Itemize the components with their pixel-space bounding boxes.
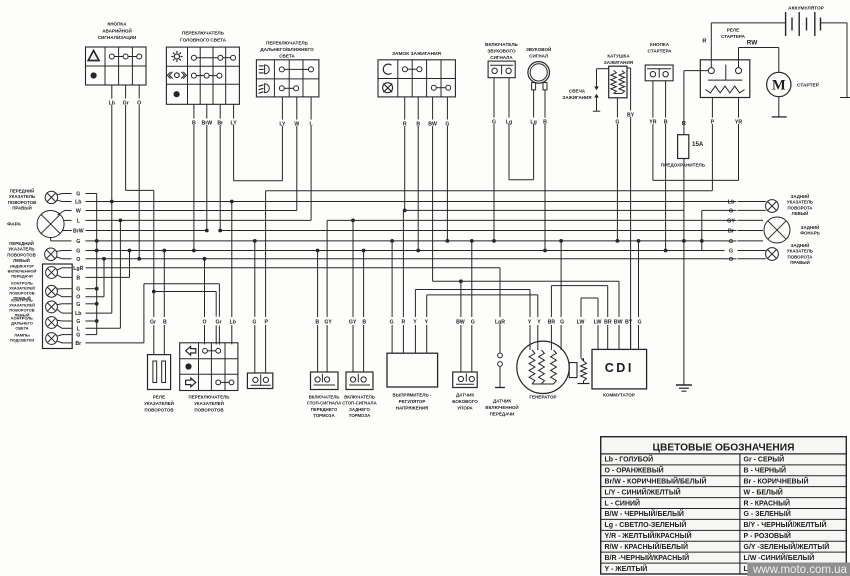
svg-text:LgR: LgR [495,320,505,326]
svg-text:L: L [77,326,81,332]
wire L from HL7 [57,325,62,328]
wire R battery to relay [710,23,712,68]
junction G-bus/CDI [637,239,641,243]
svg-text:W: W [294,122,299,128]
svg-text:O: O [137,101,141,107]
junction B/starter-button [664,249,668,253]
wire YR link button-to-relay [653,179,739,181]
junction R/ignition-lock [403,209,407,213]
wire BW bus ignition-to-CDI [433,280,619,282]
svg-text:R: R [702,39,707,45]
svg-text:ТОРМОЗА: ТОРМОЗА [313,413,334,418]
wire Lb stub front-right-turn [62,201,72,203]
starter relay K1 body [700,60,750,98]
wire Br stub illumination [62,342,72,344]
svg-text:L/W -СИНИЙ/БЕЛЫЙ: L/W -СИНИЙ/БЕЛЫЙ [744,553,815,562]
svg-text:L: L [77,218,81,224]
svg-text:ЗВУКОВОГО: ЗВУКОВОГО [487,49,516,54]
svg-text:ВКЛЮЧАТЕЛЬ: ВКЛЮЧАТЕЛЬ [485,42,518,47]
wire G from HL2 bottom [50,238,52,241]
wire BR generator-to-CDI link [551,285,607,287]
wire LgR stub gear-indicator [62,267,72,269]
junction GY/rear-brake [351,219,355,223]
junction B-link [128,249,132,253]
svg-text:B: B [664,120,668,126]
wire O stub front-left-turn [62,258,72,260]
junction G/horn-button [492,239,496,243]
wire G from HL3 [57,250,62,253]
wire G from generator [560,241,562,317]
svg-text:ЗАДНИЙ: ЗАДНИЙ [801,225,820,230]
svg-text:ПРАВЫЙ: ПРАВЫЙ [12,206,32,211]
svg-text:LY: LY [231,121,238,127]
wire LgR bus [97,267,500,269]
junction B-bus/rear-brake [362,249,366,253]
wire Lb bus front-to-rear [97,201,725,203]
svg-text:LW: LW [594,320,602,326]
icon left arrow in S7 [186,346,196,355]
svg-text:ЗАДНИЙ: ЗАДНИЙ [791,243,810,248]
svg-text:ЗАЖИГАНИЯ: ЗАЖИГАНИЯ [562,95,591,100]
svg-text:Br: Br [217,121,223,127]
svg-text:ПЕРЕКЛЮЧАТЕЛЬ: ПЕРЕКЛЮЧАТЕЛЬ [182,31,225,36]
wire B from ignition lock [417,97,419,120]
wire Lg jumper horn-button-to-horn [509,179,534,181]
wire P from starter relay [711,98,713,118]
front left turn signal lamp HL3 [45,248,57,260]
CDI unit U1 body [592,349,647,389]
wire O bus front-to-rear [104,258,725,260]
svg-text:R: R [402,320,406,326]
svg-text:www.moto.com.ua: www.moto.com.ua [752,564,848,576]
svg-text:ДАЛЬНЕГО/БЛИЖНЕГО: ДАЛЬНЕГО/БЛИЖНЕГО [260,47,314,52]
svg-text:B/W - ЧЕРНЫЙ/БЕЛЫЙ: B/W - ЧЕРНЫЙ/БЕЛЫЙ [605,509,684,518]
high beam indicator lamp HL7 [46,317,58,329]
wire LY from headlight switch [233,104,235,118]
horn button S5 body [488,61,515,78]
svg-text:Lg: Lg [506,120,512,126]
svg-text:O: O [76,295,80,301]
svg-text:BW: BW [428,122,437,128]
icon low beam in S3 [265,84,270,93]
generator G1 body [517,341,569,393]
svg-text:B: B [315,320,319,326]
svg-text:B: B [192,121,196,127]
wire BR from CDI [607,286,609,317]
wire LW pickup-to-CDI link [581,297,598,299]
svg-text:R: R [682,121,686,127]
svg-text:W - БЕЛЫЙ: W - БЕЛЫЙ [744,487,783,496]
wire YR from starter relay [738,98,740,118]
front right turn signal lamp HL1 [45,191,57,203]
svg-text:P - РОЗОВЫЙ: P - РОЗОВЫЙ [744,531,791,540]
svg-text:L/Y - СИНИЙ/ЖЕЛТЫЙ: L/Y - СИНИЙ/ЖЕЛТЫЙ [605,487,681,496]
junction O/turn-switch [203,257,207,261]
wire O from hazard switch [138,85,140,99]
hazard switch S1 body [86,47,147,85]
ground below CDI [676,384,692,386]
wire BW from side stand sensor [460,281,462,317]
svg-text:B: B [163,320,167,326]
svg-text:Br/W - КОРИЧНЕВЫЙ/БЕЛЫЙ: Br/W - КОРИЧНЕВЫЙ/БЕЛЫЙ [605,476,707,485]
svg-text:R - КРАСНЫЙ: R - КРАСНЫЙ [744,498,790,507]
svg-text:ПЕРЕДНЕГО: ПЕРЕДНЕГО [311,407,338,412]
wire battery negative [821,22,848,24]
icon right arrow in S7 [186,378,196,387]
icon parking light in S2 [175,73,180,78]
side stand sensor S10 body [453,372,478,388]
wire P bus relay-to-connector [266,190,713,192]
junction Br/headlight-switch [218,229,222,233]
svg-text:G: G [729,208,733,214]
wire Lb from hazard switch [111,85,113,99]
svg-text:G: G [76,287,80,293]
wire LW from pickup coil [580,298,582,317]
svg-text:Lb: Lb [75,200,81,206]
wire G from ignition coil [616,98,618,118]
wire BY ignition coil to CDI [627,67,631,69]
fuse FU1 15A body [678,135,689,159]
wire O stub right-turn-indicator [62,296,72,298]
svg-text:КНОПКА: КНОПКА [650,42,670,47]
svg-text:YR: YR [735,120,742,126]
svg-text:РЕЛЕ: РЕЛЕ [727,28,739,33]
wire Br link to turn switch [143,284,145,343]
svg-text:АККУМУЛЯТОР: АККУМУЛЯТОР [788,6,825,12]
svg-text:G: G [76,249,80,255]
starter button S6 body [645,65,673,81]
rear left turn signal lamp HL9 [766,200,779,213]
svg-text:G: G [492,120,496,126]
wire B front brake switch vertical [317,251,319,318]
svg-text:ВКЛЮЧЕННОЙ: ВКЛЮЧЕННОЙ [485,403,518,410]
wire L stub high-beam-indicator [62,327,72,329]
svg-text:CDI: CDI [605,361,634,375]
svg-text:НАПРЯЖЕНИЯ: НАПРЯЖЕНИЯ [396,405,429,410]
svg-text:СИГНАЛИЗАЦИИ: СИГНАЛИЗАЦИИ [98,35,137,40]
wire starter to ground [778,97,780,117]
wire G stub headlight-ground [60,240,72,242]
svg-text:Br: Br [728,229,735,235]
svg-text:ПОДСВЕТКИ: ПОДСВЕТКИ [10,338,35,343]
wire Y1 from generator [529,290,531,318]
wire B link vertical left [129,251,131,278]
svg-text:Lg: Lg [530,120,536,126]
gear position indicator lamp HL4 [46,267,58,279]
svg-text:Gr - СЕРЫЙ: Gr - СЕРЫЙ [744,455,785,464]
svg-text:P: P [711,120,715,126]
svg-text:O: O [729,257,734,263]
wire B bus (battery hot) [97,250,702,252]
svg-text:B: B [76,275,80,281]
wire G main ground bus [97,240,684,242]
svg-text:СВЕТА: СВЕТА [15,326,28,331]
wire LgR from HL4 [57,268,62,270]
wire Lb from HL6 [57,310,62,314]
junction B/ignition [416,249,420,253]
svg-text:Lg - СВЕТЛО-ЗЕЛЕНЫЙ: Lg - СВЕТЛО-ЗЕЛЕНЫЙ [605,520,687,529]
wire GY rear brake switch vertical [352,220,354,317]
wire G stub right-turn-indicator [62,288,72,290]
spark plug E1 symbol [597,68,609,70]
svg-text:ДАТЧИК: ДАТЧИК [493,399,511,404]
svg-text:L: L [310,122,314,128]
wire Y2 from rectifier [426,295,428,317]
wire O from HL3 [57,257,62,259]
svg-text:Y: Y [537,320,541,326]
beam switch S3 body [256,60,319,97]
svg-text:Br - КОРИЧНЕВЫЙ: Br - КОРИЧНЕВЫЙ [744,476,809,485]
svg-text:Lb: Lb [109,101,115,107]
headlight switch S2 body [166,47,239,104]
junction G-bus/rectifier [390,239,394,243]
wire Lb from HL1 [57,200,62,201]
svg-text:BrW: BrW [73,229,84,235]
svg-text:GY: GY [349,320,357,326]
wire Y rectifier-to-generator link 2 [427,294,538,296]
svg-text:Y - ЖЕЛТЫЙ: Y - ЖЕЛТЫЙ [605,564,648,573]
rear lamp HL10 (ЗАДНИЙ ФОНАРЬ) [764,217,790,243]
svg-text:G: G [252,320,256,326]
svg-text:УКАЗАТЕЛЬ: УКАЗАТЕЛЬ [8,247,34,252]
svg-text:СВЕЧА: СВЕЧА [569,89,586,94]
wire W bus headlight low beam [97,210,297,212]
svg-text:G: G [637,320,641,326]
svg-text:Lb: Lb [230,320,236,326]
voltage regulator-rectifier U2 body [387,353,438,387]
starter motor M1 body [767,72,791,96]
wire Br from headlight switch [219,104,221,118]
wire R from rectifier [402,210,404,317]
junction Lb/hazard [110,200,114,204]
connector X1 (G/P) body [247,373,272,389]
svg-text:G: G [390,320,394,326]
svg-text:СТАРТЕР: СТАРТЕР [797,83,820,89]
svg-text:БОКОВОГО: БОКОВОГО [452,399,478,404]
svg-text:GY: GY [727,218,735,224]
svg-text:LW: LW [577,320,585,326]
wire L stub headlight [68,219,72,221]
svg-text:RW: RW [747,40,758,47]
wire G stub front-right-turn [62,193,72,195]
svg-text:ПОВОРОТОВ: ПОВОРОТОВ [144,407,174,412]
wire L from beam switch [310,97,312,120]
icon off (dot) in S2 [174,91,180,97]
wire B stub gear-indicator [62,276,72,278]
wire BrW stub headlight [68,230,72,232]
svg-text:G/Y -ЗЕЛЕНЫЙ/ЖЕЛТЫЙ: G/Y -ЗЕЛЕНЫЙ/ЖЕЛТЫЙ [744,542,830,551]
wire O from HL5 [57,294,62,297]
svg-text:G: G [729,249,733,255]
svg-text:ДАТЧИК: ДАТЧИК [456,393,474,398]
junction O-link [102,257,106,261]
junction G/coil [616,239,620,243]
wire RW relay to starter [738,48,740,68]
icon lamp-on (sun) in S2 [174,54,179,59]
svg-text:КАТУШКА: КАТУШКА [607,54,630,59]
junction O/hazard [137,257,141,261]
svg-text:УКАЗАТЕЛЬ: УКАЗАТЕЛЬ [787,249,813,254]
wire B rear brake switch vertical [363,251,365,318]
junction G/ignition [446,239,450,243]
wire Y1 from rectifier [414,290,416,318]
svg-text:L - СИНИЙ: L - СИНИЙ [605,498,641,507]
svg-text:BrW: BrW [201,121,212,127]
junction G-bus/generator [559,239,563,243]
flasher relay K2 (РЕЛЕ УКАЗАТЕЛЕЙ ПОВОРОТОВ) body [148,355,171,390]
junction B/headlight-switch [192,249,196,253]
junction B/horn [543,249,547,253]
wire BR from generator [550,286,552,317]
wire R relay pin to fuse [684,70,708,72]
svg-text:ПЕРЕДНИЙ: ПЕРЕДНИЙ [10,189,35,194]
left turn indicator lamp HL6 [46,301,58,313]
svg-text:Lb - ГОЛУБОЙ: Lb - ГОЛУБОЙ [605,455,654,464]
wire L bus headlight high beam [97,219,311,221]
svg-text:СТОП-СИГНАЛА: СТОП-СИГНАЛА [307,401,341,406]
svg-text:G: G [76,319,80,325]
wire G from side stand sensor [471,241,473,317]
ground under starter motor [772,116,787,118]
svg-text:LgR: LgR [73,266,83,272]
svg-text:СТАРТЕРА: СТАРТЕРА [721,34,746,39]
wire BrW from HL2 [62,230,68,232]
svg-text:YR: YR [649,120,656,126]
svg-text:ПОВОРОТОВ: ПОВОРОТОВ [7,252,36,257]
svg-text:B: B [362,320,366,326]
svg-text:Gr: Gr [215,320,221,326]
wire BrW from headlight switch [206,104,208,118]
junction G-bus/side-stand [470,239,474,243]
wire BY from CDI [630,325,632,349]
pickup coil L1 [581,361,587,381]
headlight HL2 [37,211,64,238]
svg-text:BW: BW [456,320,465,326]
icon off dot in S7 [185,363,191,369]
wire L link vertical (headlight to high-beam indicator) [119,220,121,328]
wire O turn switch vertical [204,259,206,317]
junction BW/side-stand [459,279,463,283]
battery GB1 symbol [785,12,787,36]
wire Gr flasher relay vertical [153,190,155,317]
svg-text:УКАЗАТЕЛЕЙ: УКАЗАТЕЛЕЙ [144,399,174,406]
svg-text:ПОВОРОТОВ: ПОВОРОТОВ [8,200,37,205]
wire BW from CDI [618,281,620,317]
wire Lb stub left-turn-indicator [62,312,72,314]
wire B flasher relay vertical [163,251,165,318]
wire G from HL6 [57,303,62,306]
svg-text:BY: BY [627,113,635,119]
svg-text:G: G [76,239,80,245]
svg-text:ВКЛЮЧАТЕЛЬ: ВКЛЮЧАТЕЛЬ [344,395,375,400]
wire Br bus to rear lamp [220,230,724,232]
wire rear ground collector vertical [701,210,703,250]
svg-text:O: O [202,320,206,326]
svg-text:Lb: Lb [75,311,81,317]
svg-text:УКАЗАТЕЛЬ: УКАЗАТЕЛЬ [787,200,813,205]
wire Br from HL8 [57,341,62,343]
svg-text:BR: BR [548,320,556,326]
watermark bar [747,563,850,576]
svg-text:B - ЧЕРНЫЙ: B - ЧЕРНЫЙ [744,466,786,475]
wire O link vertical left [103,259,105,297]
wire YR from starter button [652,81,654,118]
wire G rear-right-turn segment [702,250,725,252]
svg-text:СТОП-СИГНАЛА: СТОП-СИГНАЛА [342,401,376,406]
svg-text:ГОЛОВНОГО СВЕТА: ГОЛОВНОГО СВЕТА [180,37,227,42]
svg-text:ЗАМОК ЗАЖИГАНИЯ: ЗАМОК ЗАЖИГАНИЯ [392,51,442,57]
svg-text:ГЕНЕРАТОР: ГЕНЕРАТОР [529,395,556,400]
junction L-link [119,219,123,223]
svg-text:РЕГУЛЯТОР: РЕГУЛЯТОР [399,399,426,404]
junction ground-bus/fuse-column [682,239,686,243]
icon off position in S4 [383,83,393,93]
svg-text:G: G [729,239,733,245]
svg-text:B: B [416,122,420,128]
svg-text:M: M [772,78,786,94]
svg-text:СТАРТЕРА: СТАРТЕРА [648,49,673,54]
svg-text:ФОНАРЬ: ФОНАРЬ [800,231,820,236]
wire G from ignition lock [446,97,448,120]
svg-text:ПЕРЕКЛЮЧАТЕЛЬ: ПЕРЕКЛЮЧАТЕЛЬ [188,395,230,400]
wire Lg from horn [533,90,535,118]
svg-text:O - ОРАНЖЕВЫЙ: O - ОРАНЖЕВЫЙ [605,466,664,475]
svg-text:Y: Y [528,320,532,326]
wire LY from beam switch [281,97,283,120]
wire B from headlight switch [193,104,195,118]
svg-text:Y: Y [425,320,429,326]
junction B-bus/front-brake [316,249,320,253]
wire G from HL5 [57,288,62,290]
wire G from rectifier [391,241,393,317]
svg-text:Y: Y [413,320,417,326]
wire LW from CDI [597,298,599,317]
svg-text:LY: LY [279,122,286,128]
wire W stub headlight [68,210,72,212]
ignition coil T1 body [609,66,627,98]
svg-text:BW: BW [614,320,623,326]
svg-text:ЛЕВЫЙ: ЛЕВЫЙ [792,211,809,216]
svg-text:ПОВОРОТОВ: ПОВОРОТОВ [194,407,224,412]
wire battery positive to relay [711,22,785,24]
svg-text:ЗАЖИГАНИЯ: ЗАЖИГАНИЯ [604,60,633,65]
svg-text:ПОВОРОТА: ПОВОРОТА [788,205,814,210]
svg-text:B/R -ЧЕРНЫЙ/КРАСНЫЙ: B/R -ЧЕРНЫЙ/КРАСНЫЙ [605,553,690,562]
ground bus vertical left [96,194,98,335]
svg-text:ЗАДНИЙ: ЗАДНИЙ [791,194,810,199]
rear right turn signal lamp HL11 [766,248,779,261]
generator pickup housing [569,363,577,378]
wire BrW bus headlight [97,230,207,232]
svg-text:СИГНАЛА: СИГНАЛА [490,55,513,60]
svg-text:ПРАВЫЙ: ПРАВЫЙ [790,260,810,265]
wire W from HL2 [58,211,72,216]
wire G stub left-turn-indicator [62,303,72,305]
junction B-bus/relay [162,249,166,253]
wire G from HL1 [57,194,62,195]
svg-text:ЦВЕТОВЫЕ ОБОЗНАЧЕНИЯ: ЦВЕТОВЫЕ ОБОЗНАЧЕНИЯ [653,443,795,454]
wire G from HL7 [57,319,62,322]
svg-text:15А: 15А [692,141,704,148]
wire Lb link vertical (hazard to left-turn indicator) [111,202,113,314]
svg-text:ТОРМОЗА: ТОРМОЗА [349,413,370,418]
svg-text:G: G [76,192,80,198]
svg-text:BY: BY [625,320,633,326]
wire Lb turn switch vertical [231,202,233,318]
svg-text:G: G [560,320,564,326]
wire Gr link to turn switch [154,291,216,293]
svg-text:ВКЛЮЧАТЕЛЬ: ВКЛЮЧАТЕЛЬ [309,395,340,400]
